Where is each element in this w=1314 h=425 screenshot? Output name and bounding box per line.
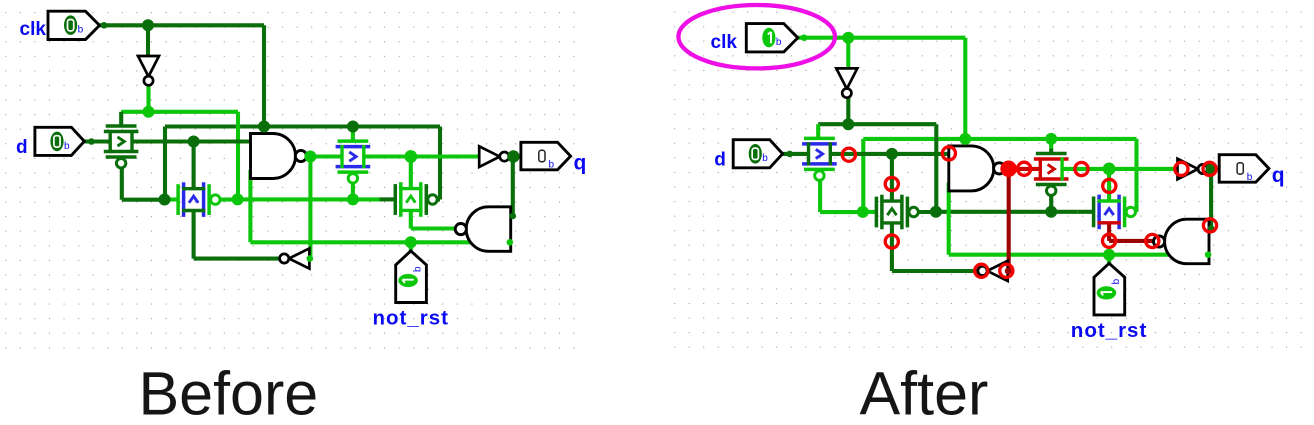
svg-text:q: q (1272, 164, 1285, 187)
svg-text:d: d (714, 149, 726, 170)
svg-text:b: b (78, 24, 84, 35)
svg-text:b: b (1111, 278, 1122, 284)
svg-text:b: b (1247, 172, 1253, 183)
svg-text:d: d (16, 137, 28, 158)
svg-text:not_rst: not_rst (1071, 319, 1147, 342)
svg-text:clk: clk (20, 19, 47, 40)
svg-text:After: After (860, 360, 989, 421)
svg-text:q: q (574, 152, 587, 175)
svg-text:b: b (64, 141, 70, 152)
svg-text:b: b (413, 266, 424, 272)
svg-text:b: b (776, 37, 782, 48)
svg-text:Before: Before (139, 360, 319, 421)
svg-text:b: b (762, 153, 768, 164)
svg-text:not_rst: not_rst (373, 307, 449, 330)
svg-text:b: b (549, 160, 555, 171)
svg-text:clk: clk (711, 32, 738, 53)
